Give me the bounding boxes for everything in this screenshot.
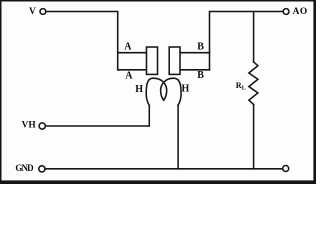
terminal VH bbox=[39, 123, 45, 129]
wire AO to resistor bbox=[253, 12, 255, 62]
svg-text:B: B bbox=[197, 42, 204, 53]
terminal right (unlabeled) bbox=[283, 166, 289, 172]
svg-text:H: H bbox=[135, 84, 143, 95]
wire lead B bottom bbox=[180, 69, 210, 71]
wire VH to heater bbox=[45, 106, 149, 127]
electrode plate B bbox=[169, 47, 180, 74]
wire lead A top bbox=[118, 52, 147, 54]
wire lead B top bbox=[180, 52, 210, 54]
wire lead A bottom bbox=[118, 69, 147, 71]
resistor RL bbox=[249, 62, 258, 105]
svg-text:A: A bbox=[125, 71, 133, 82]
svg-text:AO: AO bbox=[293, 7, 308, 17]
terminal V bbox=[40, 9, 46, 15]
wire heater right leg to GND bbox=[177, 106, 179, 169]
svg-text:GND: GND bbox=[15, 163, 34, 173]
terminal GND bbox=[39, 166, 45, 172]
wire B to AO bbox=[210, 12, 284, 70]
svg-text:B: B bbox=[197, 70, 204, 81]
svg-text:A: A bbox=[124, 42, 132, 53]
wire V to plate stub bbox=[46, 12, 118, 70]
svg-text:VH: VH bbox=[22, 120, 36, 130]
heater loop H right bbox=[161, 78, 182, 105]
svg-text:H: H bbox=[182, 84, 190, 95]
electrode plate A bbox=[147, 47, 158, 74]
wire GND rail bbox=[45, 168, 283, 170]
heater loop H left bbox=[146, 78, 167, 105]
svg-text:V: V bbox=[29, 7, 36, 17]
terminal AO bbox=[283, 9, 289, 15]
wire resistor to GND bbox=[253, 105, 255, 169]
